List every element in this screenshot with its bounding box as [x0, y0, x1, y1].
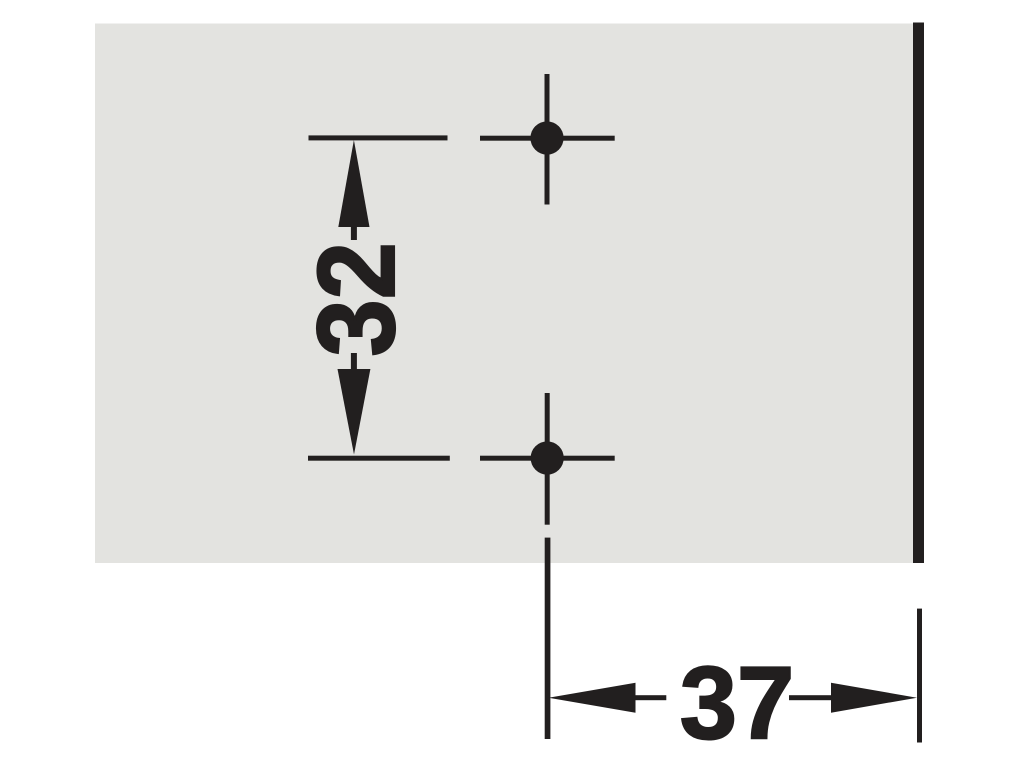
panel (cabinet side, light gray): [95, 24, 913, 564]
dimension 32: top extension line: [309, 135, 448, 140]
dimension 32: bottom extension line: [308, 456, 450, 461]
drill hole bottom: vertical crosshair: [545, 393, 550, 525]
drill hole top: hole: [530, 121, 563, 154]
drill hole bottom: horizontal crosshair: [480, 456, 615, 461]
dimension 37: right arrow tail: [789, 695, 831, 700]
drill hole bottom: hole: [531, 441, 564, 474]
dimension 37: right arrow: [831, 683, 917, 713]
dimension 32: upper arrow tail: [351, 227, 357, 240]
svg-text:32: 32: [296, 242, 417, 357]
dimension 37: right extension line: [917, 609, 922, 743]
drill hole top: vertical crosshair: [545, 74, 550, 205]
dimension 32: lower arrow: [338, 369, 371, 455]
svg-text:37: 37: [680, 645, 795, 760]
drill hole top: horizontal crosshair: [480, 136, 615, 141]
dimension 32: upper arrow: [338, 140, 369, 227]
dimension 37: left arrow tail: [636, 695, 667, 700]
centerline extending below panel: [545, 538, 551, 739]
panel front edge (thick black line): [913, 23, 924, 564]
dimension 37: left arrow: [549, 683, 636, 713]
dimension 32: lower arrow tail: [351, 353, 357, 369]
